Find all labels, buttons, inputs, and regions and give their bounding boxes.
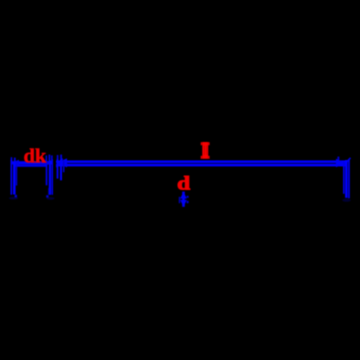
mid-left bundle top ticks: [57, 155, 59, 159]
length dimension line lower strand: [56, 164, 346, 167]
right bundle line 2: [345, 160, 348, 198]
diameter symbol right mark lower: [187, 201, 189, 203]
left corner slash: [57, 159, 63, 168]
head right leg mid line: [49, 161, 51, 195]
label l inner shade left: [203, 146, 206, 156]
head right leg outer line: [52, 160, 53, 195]
extension tick left mid: [14, 158, 16, 162]
diameter symbol bottom arrowhead: [180, 200, 187, 207]
mid-left bundle line 3: [63, 161, 65, 172]
dk arrow right: [45, 160, 53, 166]
extension tick right mid: [49, 155, 51, 162]
extension tick left outer: [11, 157, 13, 162]
label l serif top-left: [201, 142, 203, 145]
diameter symbol shaft: [182, 192, 185, 207]
right arrow of length dimension: [336, 159, 346, 167]
length dimension line upper strand: [56, 160, 346, 163]
svg-text:dk: dk: [24, 146, 47, 168]
right bundle line 1: [343, 162, 345, 194]
left arrow of length dimension: [56, 158, 67, 167]
head right leg tip dot: [46, 195, 48, 197]
head right leg mid flare: [48, 188, 49, 195]
diameter symbol right mark upper: [187, 196, 189, 198]
length dimension line dark seam: [66, 163, 338, 164]
label l serif bottom-right: [208, 156, 209, 159]
extension tick right inner: [46, 155, 48, 161]
head left leg tip dot: [15, 195, 17, 198]
diameter symbol left bracket: [179, 197, 180, 203]
extension tick right outer: [51, 155, 53, 161]
head left leg foot shadow: [9, 197, 18, 200]
right bundle foot shadow: [342, 199, 350, 202]
label l serif bottom-left: [201, 156, 203, 159]
dk arrow left: [11, 160, 19, 166]
label l bar: [202, 142, 208, 159]
right bundle line 3: [348, 159, 350, 198]
label l serif top-right: [208, 142, 209, 145]
diameter symbol top arrowhead: [180, 192, 187, 199]
dimension line dk: [11, 161, 53, 164]
svg-text:d: d: [177, 173, 191, 194]
head right leg foot shadow: [47, 197, 55, 200]
head top line: [16, 165, 48, 167]
head left leg inner line: [16, 165, 17, 186]
head left leg outer line: [11, 160, 13, 195]
label l inner shade right: [205, 146, 208, 156]
head right leg inner line: [46, 164, 48, 185]
right arrow top bump: [337, 157, 339, 160]
mid-left bundle line 2: [60, 160, 62, 181]
right corner slash: [345, 158, 351, 165]
mid-left bundle line 1: [57, 159, 59, 179]
head left leg mid line: [13, 162, 16, 195]
